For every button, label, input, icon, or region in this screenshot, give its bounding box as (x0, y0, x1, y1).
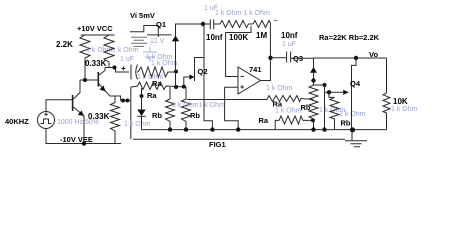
Q3 vertical (313, 58, 315, 81)
svg-text:Rb: Rb (190, 111, 200, 120)
output wire (261, 23, 271, 81)
capacitor C plate1 (130, 65, 132, 80)
pulse source glyph (130, 26, 158, 38)
top wire (176, 23, 204, 25)
resistor Ra horizontal #3 (187, 96, 314, 102)
svg-text:1 uF: 1 uF (282, 41, 296, 48)
T1 collector (73, 80, 80, 99)
svg-text:1 k Ohm: 1 k Ohm (112, 47, 139, 54)
svg-text:Vo: Vo (369, 50, 378, 59)
svg-text:10nf: 10nf (206, 33, 223, 42)
transistor T1 base bar (72, 95, 74, 111)
node dot (140, 94, 144, 98)
svg-text:1000 Hz 50%: 1000 Hz 50% (57, 119, 99, 126)
faint cap symbol (143, 47, 157, 62)
svg-text:100K: 100K (229, 33, 248, 42)
svg-text:Q2: Q2 (198, 67, 208, 76)
svg-text:1 k Ohm: 1 k Ohm (275, 108, 302, 115)
svg-text:1M: 1M (256, 31, 267, 40)
svg-text:-10V VEE: -10V VEE (60, 135, 93, 144)
wire mid y101 (121, 100, 131, 102)
source circle (38, 112, 55, 129)
svg-text:Ra=22K Rb=2.2K: Ra=22K Rb=2.2K (319, 33, 380, 42)
step to Rb3 (329, 92, 335, 97)
svg-text:Q4: Q4 (350, 79, 361, 88)
diode D1 (141, 88, 143, 110)
Q2 arrow (189, 74, 194, 79)
source top wire (46, 100, 72, 112)
source square wave (41, 119, 52, 124)
svg-text:Vi 5mV: Vi 5mV (130, 11, 155, 20)
node dot VEE (82, 141, 86, 145)
ground (345, 130, 367, 147)
resistor 1M (253, 21, 270, 28)
Q3 arrow (310, 67, 317, 73)
node N2 dot (113, 66, 117, 70)
Vo rail (314, 57, 387, 59)
svg-text:Ra: Ra (147, 91, 157, 100)
minus glyph (241, 75, 245, 77)
bottom rail (142, 129, 387, 131)
wire to cap (270, 57, 286, 59)
resistor Rb vertical #3 (330, 97, 339, 129)
node dot (311, 78, 315, 82)
battery 12V bars (131, 37, 147, 46)
source bottom wire (46, 129, 121, 144)
resistor 10K (383, 58, 390, 130)
resistor R 2.2K (1 k Ohm) (80, 35, 90, 80)
plus input wire (225, 87, 239, 129)
svg-text:+10V VCC: +10V VCC (77, 24, 113, 33)
resistor Rb left vertical (166, 87, 175, 130)
transistor Q upper (T2) base bar (98, 72, 100, 87)
Q1 arrow (172, 36, 179, 42)
transistor Q4 (352, 58, 357, 130)
wire y85 (314, 84, 325, 86)
Ra2 left riser to lower rail (130, 87, 132, 139)
resistor Ra horizontal #1 (138, 67, 176, 77)
minus input feedback vertical (226, 26, 251, 77)
node dot (182, 85, 186, 89)
T1 emitter (73, 107, 84, 144)
resistor 100K (220, 21, 253, 28)
node dot (121, 99, 125, 103)
node dot (311, 118, 315, 122)
svg-text:12 V: 12 V (150, 38, 165, 45)
Q2 collector branch (195, 58, 205, 82)
node dot (174, 85, 178, 89)
svg-text:10nf: 10nf (281, 31, 298, 40)
T2 collector (99, 68, 105, 76)
VCC rail (81, 34, 115, 36)
svg-text:1 k Ohm 1 k Ohm: 1 k Ohm 1 k Ohm (215, 10, 270, 17)
wire y92.3 to Q4 (325, 91, 344, 93)
svg-text:1 uF: 1 uF (120, 56, 134, 63)
node N1 dot (83, 78, 87, 82)
node dot (126, 99, 130, 103)
source plus (44, 113, 48, 117)
svg-text:+: + (121, 64, 126, 73)
transistor Q1 vertical line (175, 24, 177, 88)
node dot (327, 90, 331, 94)
capacitor out wire (137, 71, 138, 73)
node N3 dot (174, 70, 178, 74)
Q4 arrow (343, 90, 349, 95)
svg-text:1 k Ohm1 k Ohm: 1 k Ohm1 k Ohm (172, 102, 225, 109)
svg-text:Rb: Rb (341, 119, 351, 128)
svg-text:1 k Ohm: 1 k Ohm (124, 121, 151, 128)
Q2 base wire (184, 77, 190, 87)
svg-text:Q3: Q3 (293, 54, 303, 63)
T1 emitter arrow (78, 111, 84, 117)
resistor Rb vertical (under Q3) (309, 81, 318, 130)
end tick (274, 20, 278, 22)
resistor Ra horizontal #2 (131, 82, 186, 90)
vertical x=324.5 (324, 85, 326, 130)
node dot (322, 127, 326, 131)
capacitor C plate2 curved (136, 65, 138, 80)
node dot Vo (354, 56, 358, 60)
svg-text:10K: 10K (393, 97, 408, 106)
node dot (323, 83, 327, 87)
svg-text:0.33K: 0.33K (85, 59, 107, 68)
svg-text:741: 741 (249, 65, 262, 74)
node N2 wire (105, 68, 129, 73)
transistor Q2 feed vertical (204, 24, 212, 129)
svg-text:Rb: Rb (152, 111, 162, 120)
capacitor 10nf plates (203, 19, 220, 29)
svg-text:Q1: Q1 (156, 20, 166, 29)
op-amp 741 triangle (238, 67, 261, 94)
node dot output (268, 56, 272, 60)
svg-text:FIG1: FIG1 (209, 140, 226, 149)
svg-text:1 k Ohm: 1 k Ohm (266, 85, 293, 92)
lower rail 2 (133, 138, 345, 140)
resistor Ra horizontal #4 (275, 116, 313, 130)
capacitor Q3 coupling (287, 52, 314, 63)
T2 emitter (99, 84, 121, 101)
svg-text:1 k Ohm: 1 k Ohm (391, 106, 418, 113)
rail dots (168, 127, 172, 131)
svg-text:2.2K: 2.2K (56, 40, 73, 49)
svg-text:Rb: Rb (301, 103, 311, 112)
plus glyph (240, 85, 244, 89)
svg-text:Ra: Ra (259, 116, 269, 125)
svg-text:1 k Ohm: 1 k Ohm (339, 111, 366, 118)
node dot (201, 22, 205, 26)
resistor 0.33K emitter (111, 96, 120, 144)
T2 base wire (80, 79, 98, 81)
svg-text:40KHZ: 40KHZ (5, 117, 29, 126)
resistor R 0.33K collector (1 k Ohm) (104, 35, 114, 68)
T2 emitter arrow (100, 86, 106, 92)
resistor Rb mid vertical (182, 87, 191, 130)
wire source to Q1 (147, 34, 172, 36)
